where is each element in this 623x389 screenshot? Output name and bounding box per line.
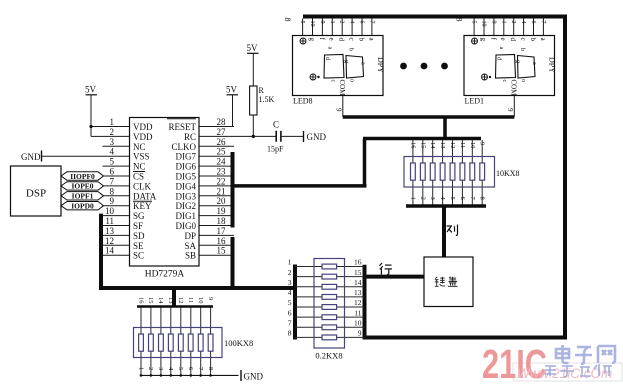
svg-text:15: 15 — [419, 142, 426, 149]
svg-text:12: 12 — [354, 298, 362, 307]
svg-text:20: 20 — [217, 196, 227, 206]
svg-text:11: 11 — [105, 216, 114, 226]
U1 left pin 11 SF — [103, 216, 144, 231]
watermark 21IC (decorative) — [482, 341, 622, 387]
svg-text:d: d — [338, 38, 346, 42]
svg-text:15: 15 — [217, 246, 227, 256]
resistor network RN1 10KX8 — [404, 140, 520, 206]
svg-text:13: 13 — [167, 297, 174, 304]
bus wire: 0.2KX8 right pin bus — [363, 265, 367, 340]
junction dot R/RC — [252, 135, 255, 138]
svg-text:5: 5 — [471, 21, 477, 24]
svg-text:1: 1 — [110, 117, 115, 127]
svg-text:17: 17 — [217, 226, 227, 236]
U1 right pin 24 DIG6 — [176, 157, 235, 172]
node label 列 — [447, 225, 458, 236]
svg-text:b: b — [357, 38, 365, 42]
svg-text:SG: SG — [133, 211, 145, 221]
svg-text:R: R — [259, 86, 265, 95]
capacitor C 15pF — [267, 120, 284, 154]
svg-text:Www.21iC.cOm: Www.21iC.cOm — [517, 366, 612, 381]
svg-text:SB: SB — [185, 251, 196, 261]
svg-text:27: 27 — [217, 127, 227, 137]
net label flag IIOPF0 from DSP to U1 pin 6 — [61, 172, 104, 181]
bus wire: top segment bus over LED displays — [303, 15, 567, 19]
svg-text:15: 15 — [354, 268, 362, 277]
U1 right pin 22 DIG4 — [176, 176, 235, 191]
net label flag IOPE0 from DSP to U1 pin 7 — [61, 182, 104, 191]
resistor network RN2 100KX8 — [134, 297, 254, 375]
svg-text:14: 14 — [157, 297, 164, 304]
svg-text:21: 21 — [217, 186, 226, 196]
svg-text:5V: 5V — [247, 43, 259, 53]
svg-text:11: 11 — [187, 297, 194, 303]
svg-text:b: b — [519, 48, 525, 51]
svg-text:SC: SC — [133, 251, 144, 261]
svg-text:1.5K: 1.5K — [259, 95, 275, 104]
net label flag IOPF1 from DSP to U1 pin 8 — [61, 192, 104, 201]
svg-text:26: 26 — [217, 137, 227, 147]
U1 left pin 10 SG — [103, 206, 146, 221]
svg-text:2: 2 — [419, 197, 426, 200]
junction dot 5V/VDD — [89, 125, 92, 128]
svg-text:9: 9 — [335, 108, 343, 112]
svg-text:9: 9 — [110, 196, 115, 206]
svg-text:14: 14 — [429, 142, 436, 149]
U1 left pin 4 VSS — [103, 147, 150, 162]
svg-text:1: 1 — [329, 21, 335, 24]
svg-text:2: 2 — [339, 21, 345, 24]
svg-text:7: 7 — [368, 21, 374, 24]
svg-text:NC: NC — [133, 142, 146, 152]
svg-text:22: 22 — [217, 176, 226, 186]
svg-text:a: a — [531, 62, 537, 65]
svg-text:24: 24 — [217, 157, 227, 167]
svg-text:c: c — [330, 80, 336, 83]
svg-text:13: 13 — [354, 288, 362, 297]
svg-text:5V: 5V — [85, 85, 97, 95]
svg-text:5: 5 — [288, 298, 292, 307]
svg-text:9: 9 — [207, 297, 214, 300]
bus wire: bottom keyboard return — [365, 336, 568, 340]
svg-text:d: d — [496, 57, 502, 60]
svg-text:e: e — [328, 38, 336, 41]
U1 left pin 5 NC — [103, 157, 146, 172]
bus wire: 0.2KX8 left pin bus — [293, 265, 297, 340]
power 5V to U1 RESET pin 28 — [199, 85, 238, 127]
svg-text:7: 7 — [110, 176, 115, 186]
svg-text:23: 23 — [217, 167, 227, 177]
svg-text:VDD: VDD — [133, 132, 153, 142]
U1 left pin 6 CS — [103, 167, 146, 182]
svg-text:g: g — [479, 38, 487, 42]
svg-text:d: d — [509, 38, 517, 42]
svg-text:a: a — [498, 47, 504, 50]
svg-text:c: c — [519, 38, 527, 41]
U1 left pin 14 SC — [103, 246, 145, 261]
svg-text:2: 2 — [510, 21, 516, 24]
svg-text:SE: SE — [133, 241, 144, 251]
svg-text:COM: COM — [338, 80, 346, 97]
svg-text:a: a — [327, 47, 333, 50]
ground GND after capacitor — [304, 131, 327, 142]
svg-text:9: 9 — [506, 108, 514, 112]
svg-text:100KX8: 100KX8 — [224, 338, 253, 348]
svg-text:9: 9 — [490, 21, 496, 24]
svg-text:VDD: VDD — [133, 122, 153, 132]
svg-text:IIOPF0: IIOPF0 — [70, 172, 95, 181]
bus wire: COM bus drop to 10KX8 top — [443, 117, 447, 140]
svg-text:NC: NC — [133, 162, 146, 172]
svg-text:8: 8 — [479, 197, 486, 200]
svg-text:DPY: DPY — [376, 57, 385, 73]
U1 right pin 20 DIG2 — [176, 196, 235, 211]
svg-text:5: 5 — [449, 197, 456, 200]
bus wire: 100KX8 top bus — [137, 305, 213, 308]
U1 right pin 17 DP — [184, 226, 234, 241]
svg-text:16: 16 — [137, 297, 144, 304]
svg-text:CLK: CLK — [133, 181, 152, 191]
svg-text:KEY: KEY — [133, 201, 152, 211]
svg-text:g: g — [308, 38, 316, 42]
svg-text:DIG1: DIG1 — [176, 211, 197, 221]
svg-text:13: 13 — [439, 142, 446, 149]
resistor R 1.5K — [250, 86, 275, 136]
IC U1 HD7279A body — [130, 118, 200, 280]
bus wire: U1 SA/SB vertical bus to bottom — [231, 237, 235, 290]
bus wire: riser up to 10KX8 top bus — [363, 139, 367, 188]
node label 行 — [380, 263, 393, 275]
svg-text:DIG7: DIG7 — [176, 152, 197, 162]
svg-text:4: 4 — [110, 147, 115, 157]
svg-text:5: 5 — [177, 367, 184, 370]
keyboard block 键盘 — [424, 257, 473, 307]
U1 left pin 1 VDD — [103, 117, 153, 132]
svg-text:15pF: 15pF — [267, 145, 284, 154]
svg-text:16: 16 — [217, 236, 227, 246]
svg-text:SA: SA — [184, 241, 196, 251]
svg-text:IOPD0: IOPD0 — [71, 202, 94, 211]
ellipsis dots between LED8 and LED1 — [400, 63, 448, 70]
bus wire: bottom horizontal to 0.2KX8 left pins — [99, 286, 295, 290]
power 5V rail for U1 VDD pins 1-2 — [85, 85, 103, 137]
svg-text:CLKO: CLKO — [172, 142, 197, 152]
U1 left pin 9 KEY — [103, 196, 153, 211]
svg-text:b: b — [348, 48, 354, 51]
svg-text:9: 9 — [358, 329, 362, 338]
svg-text:10: 10 — [105, 206, 115, 216]
svg-text:3: 3 — [110, 137, 115, 147]
svg-text:16: 16 — [409, 142, 416, 149]
U1 right pin 27 RC — [184, 127, 234, 142]
svg-text:4: 4 — [520, 21, 526, 24]
svg-text:0.2KX8: 0.2KX8 — [315, 351, 342, 361]
svg-text:1: 1 — [409, 197, 416, 200]
svg-text:VSS: VSS — [133, 152, 150, 162]
ground GND at 100KX8 common — [241, 370, 263, 382]
svg-text:10: 10 — [354, 319, 362, 328]
svg-text:o: o — [349, 79, 355, 82]
svg-text:8: 8 — [455, 18, 464, 22]
bus wire: U1 pins 10,11,13,12,14 (SG,SF,SD,SE,SC) down left side — [99, 214, 103, 290]
U1 left pin 13 SD — [103, 226, 146, 241]
power 5V above resistor R — [247, 43, 259, 86]
svg-text:12: 12 — [449, 142, 456, 149]
svg-text:8: 8 — [207, 367, 214, 370]
svg-text:18: 18 — [217, 216, 227, 226]
svg-text:10: 10 — [481, 21, 487, 27]
svg-text:DIG4: DIG4 — [176, 181, 197, 191]
7-segment display LED1 — [455, 18, 557, 106]
bus wire: 10KX8 bottom bus — [406, 204, 486, 208]
svg-text:CS: CS — [133, 172, 144, 182]
bus wire: DIG bus to 10KX8 (horizontal at pin 22) — [233, 184, 367, 188]
U1 left pin 7 CLK — [103, 176, 152, 191]
svg-text:DIG0: DIG0 — [176, 221, 197, 231]
svg-text:GND: GND — [244, 372, 264, 382]
svg-text:1: 1 — [500, 21, 506, 24]
svg-text:DIG2: DIG2 — [176, 201, 197, 211]
U1 RESET overline — [167, 118, 196, 120]
svg-text:12: 12 — [105, 236, 114, 246]
U1 left pin 3 NC — [103, 137, 146, 152]
svg-text:LED8: LED8 — [293, 97, 313, 106]
U1 right pin 26 CLKO — [172, 137, 235, 152]
svg-text:16: 16 — [354, 258, 362, 267]
svg-text:11: 11 — [459, 142, 466, 148]
svg-text:1: 1 — [137, 367, 144, 370]
svg-text:3: 3 — [157, 367, 164, 370]
U1 left pin 12 SE — [103, 236, 145, 251]
svg-text:4: 4 — [349, 21, 355, 24]
svg-text:2: 2 — [288, 268, 292, 277]
svg-text:LED1: LED1 — [465, 97, 485, 106]
U1 right pin 28 RESET — [167, 117, 234, 132]
node 列 (column) wire from 10KX8 to keyboard — [442, 206, 446, 257]
svg-text:8: 8 — [110, 186, 115, 196]
svg-text:6: 6 — [530, 21, 536, 24]
svg-text:14: 14 — [354, 278, 362, 287]
svg-text:d: d — [324, 57, 330, 60]
bus wire: riser from bottom bus down to 100KX8 — [172, 288, 176, 308]
svg-text:14: 14 — [105, 246, 115, 256]
ground GND at U1 VSS pin 4 — [21, 151, 103, 163]
svg-text:DSP: DSP — [26, 188, 46, 200]
wire LED8 COM pin down to common bus — [335, 96, 343, 118]
svg-text:C: C — [273, 120, 279, 130]
bus wire: right vertical return — [563, 15, 567, 340]
svg-text:11: 11 — [354, 308, 361, 317]
svg-text:o: o — [520, 79, 526, 82]
svg-text:3: 3 — [429, 197, 436, 200]
bus wire: U1 DIG7-DIG0 vertical bus — [231, 152, 235, 228]
7-segment display LED8 — [283, 18, 385, 106]
U1 right pin 16 SA — [184, 236, 234, 251]
svg-text:3: 3 — [288, 278, 292, 287]
svg-text:c: c — [501, 80, 507, 83]
svg-text:7: 7 — [540, 21, 546, 24]
svg-text:10KX8: 10KX8 — [496, 169, 520, 178]
U1 left pin 2 VDD — [103, 127, 153, 142]
svg-text:6: 6 — [110, 167, 115, 177]
svg-text:c: c — [348, 38, 356, 41]
svg-text:5V: 5V — [226, 85, 238, 95]
svg-text:DIG6: DIG6 — [176, 162, 197, 172]
svg-text:HD7279A: HD7279A — [145, 270, 185, 280]
resistor network RN3 0.2KX8 — [288, 258, 365, 361]
svg-text:SD: SD — [133, 231, 145, 241]
wire LED1 COM pin down to common bus — [506, 96, 514, 118]
svg-text:10: 10 — [309, 21, 315, 27]
svg-text:12: 12 — [177, 297, 184, 304]
svg-text:1: 1 — [288, 258, 292, 267]
svg-text:RESET: RESET — [168, 122, 196, 132]
svg-text:8: 8 — [288, 329, 292, 338]
svg-text:4: 4 — [288, 288, 292, 297]
svg-text:DPY: DPY — [548, 57, 557, 73]
svg-text:e: e — [499, 38, 507, 41]
svg-text:6: 6 — [359, 21, 365, 24]
node 行 (row) wire from 0.2KX8 pin15 to keyboard — [365, 275, 425, 279]
svg-text:COM: COM — [510, 80, 518, 97]
svg-text:IOPF1: IOPF1 — [72, 192, 94, 201]
bus wire: 10KX8 top bus — [363, 137, 481, 141]
svg-text:5: 5 — [110, 157, 115, 167]
svg-text:2: 2 — [110, 127, 115, 137]
wire RC from U1 pin 27 to capacitor C — [234, 135, 276, 137]
bus wire: LED common bus — [343, 115, 515, 119]
U1 right pin 23 DIG5 — [176, 167, 235, 182]
U1 right pin 21 DIG3 — [176, 186, 235, 201]
svg-text:g: g — [515, 60, 521, 63]
svg-text:8: 8 — [283, 18, 292, 22]
svg-text:DIG3: DIG3 — [176, 191, 197, 201]
svg-text:RC: RC — [184, 132, 196, 142]
svg-text:6: 6 — [288, 308, 292, 317]
svg-text:DIG5: DIG5 — [176, 172, 197, 182]
svg-text:2: 2 — [147, 367, 154, 370]
svg-text:GND: GND — [21, 152, 41, 162]
U1 right pin 15 SB — [185, 246, 234, 261]
svg-text:a: a — [360, 62, 366, 65]
DSP block — [11, 166, 62, 216]
svg-text:10: 10 — [469, 142, 476, 149]
svg-text:7: 7 — [288, 319, 292, 328]
U1 left pin 8 DATA — [103, 186, 157, 201]
svg-text:9: 9 — [319, 21, 325, 24]
U1 right pin 19 DIG1 — [176, 206, 235, 221]
svg-text:19: 19 — [217, 206, 227, 216]
svg-text:10: 10 — [197, 297, 204, 304]
svg-text:SF: SF — [133, 221, 143, 231]
svg-text:DP: DP — [184, 231, 196, 241]
svg-text:b: b — [529, 38, 537, 42]
svg-text:15: 15 — [147, 297, 154, 304]
svg-text:28: 28 — [217, 117, 227, 127]
svg-text:DATA: DATA — [133, 191, 157, 201]
svg-text:IOPE0: IOPE0 — [71, 182, 93, 191]
net label flag IOPD0 from DSP to U1 pin 9 — [61, 202, 104, 211]
U1 right pin 18 DIG0 — [176, 216, 235, 231]
svg-text:25: 25 — [217, 147, 227, 157]
svg-text:5: 5 — [299, 21, 305, 24]
wire capacitor to ground — [281, 135, 303, 137]
svg-text:13: 13 — [105, 226, 115, 236]
svg-text:9: 9 — [479, 142, 486, 145]
svg-text:GND: GND — [307, 132, 327, 142]
wire 100KX8 bottom common to ground — [140, 374, 239, 377]
svg-text:g: g — [343, 60, 349, 63]
U1 right pin 25 DIG7 — [176, 147, 235, 162]
